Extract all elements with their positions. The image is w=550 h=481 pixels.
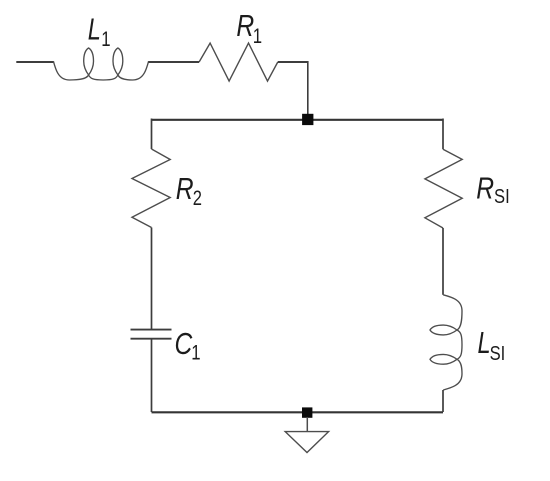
- label L1: [88, 11, 111, 51]
- label C1: [175, 326, 201, 365]
- label LSI: [478, 325, 506, 365]
- node bottom junction: [302, 407, 312, 417]
- wire bottom rail: [152, 411, 444, 413]
- svg-text:1: 1: [101, 28, 110, 51]
- wire down to node: [307, 61, 309, 119]
- resistor R1: [199, 43, 278, 81]
- svg-text:R: R: [176, 172, 194, 206]
- label RSI: [476, 171, 509, 208]
- svg-text:C: C: [175, 326, 193, 360]
- ground: [285, 432, 328, 453]
- svg-text:1: 1: [191, 342, 200, 365]
- wire ground stub: [306, 417, 308, 431]
- node top junction: [302, 114, 313, 125]
- svg-text:SI: SI: [494, 184, 510, 207]
- wire RSI to LSI: [442, 228, 444, 295]
- svg-text:SI: SI: [490, 341, 506, 364]
- label R1: [236, 8, 262, 48]
- wire left lead: [16, 61, 53, 63]
- inductor L1: [53, 48, 148, 80]
- label R2: [176, 172, 202, 211]
- capacitor C1: [131, 330, 172, 339]
- resistor R2: [132, 149, 170, 228]
- svg-text:R: R: [236, 8, 254, 42]
- wire R1 to corner: [278, 61, 308, 63]
- wire C1 to bottom rail: [151, 339, 153, 412]
- svg-text:2: 2: [193, 187, 202, 211]
- wire top rail: [152, 119, 444, 121]
- wire R2 to C1: [151, 228, 153, 330]
- wire left rail upper: [151, 119, 153, 150]
- inductor LSI: [430, 295, 462, 390]
- wire LSI to bottom rail: [442, 390, 444, 412]
- svg-text:L: L: [478, 325, 491, 360]
- wire right rail upper: [442, 119, 444, 150]
- svg-text:R: R: [476, 171, 494, 205]
- svg-text:L: L: [88, 11, 101, 46]
- resistor RSI: [425, 149, 462, 228]
- wire L1 to R1: [149, 61, 200, 63]
- svg-text:1: 1: [253, 25, 262, 48]
